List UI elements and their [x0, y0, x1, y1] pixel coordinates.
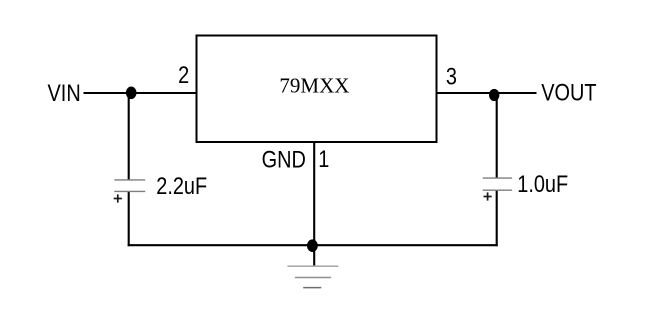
svg-text:3: 3 — [446, 63, 457, 90]
svg-text:VOUT: VOUT — [541, 79, 596, 106]
svg-text:2: 2 — [178, 62, 189, 89]
svg-text:2.2uF: 2.2uF — [156, 172, 207, 199]
svg-text:GND: GND — [262, 146, 306, 173]
svg-text:1: 1 — [318, 145, 329, 172]
svg-text:1.0uF: 1.0uF — [517, 170, 568, 197]
svg-text:79MXX: 79MXX — [279, 73, 349, 97]
svg-text:VIN: VIN — [48, 79, 81, 106]
